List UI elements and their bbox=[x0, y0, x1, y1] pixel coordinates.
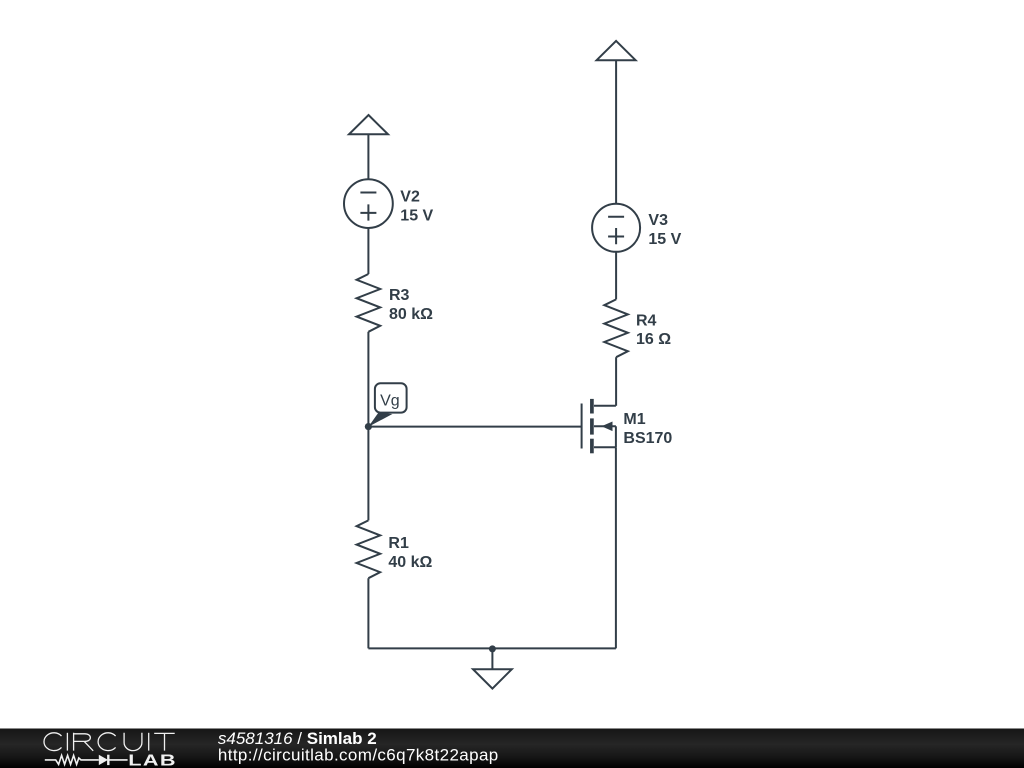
wire (gate) bbox=[368, 426, 581, 428]
svg-text:V2: V2 bbox=[400, 188, 420, 205]
label R4 16 Ohm bbox=[636, 312, 671, 348]
node flag Vg bbox=[368, 383, 406, 427]
logo resistor-diode squiggle bbox=[45, 755, 128, 765]
voltage source V3 bbox=[592, 204, 640, 252]
wire bbox=[367, 332, 369, 427]
wire (drain lead) bbox=[615, 357, 617, 406]
footer bar bbox=[0, 729, 1024, 768]
svg-text:M1: M1 bbox=[623, 411, 645, 428]
svg-text:16 Ω: 16 Ω bbox=[636, 331, 671, 348]
svg-text:80 kΩ: 80 kΩ bbox=[389, 306, 433, 323]
wire (source lead) bbox=[615, 447, 617, 648]
svg-text:R4: R4 bbox=[636, 312, 657, 329]
svg-text:V3: V3 bbox=[648, 212, 668, 229]
junction dot (ground node) bbox=[489, 645, 496, 652]
label V2 15 V bbox=[400, 188, 433, 224]
ground bbox=[473, 648, 512, 688]
logo LAB text bbox=[128, 752, 177, 768]
transistor M1 (NMOS) bbox=[582, 399, 616, 453]
resistor R3 bbox=[357, 274, 381, 332]
wire bbox=[615, 252, 617, 300]
svg-text:Vg: Vg bbox=[380, 393, 400, 410]
wire bbox=[367, 134, 369, 179]
label M1 BS170 bbox=[623, 411, 672, 447]
wire bbox=[615, 60, 617, 204]
wire bbox=[367, 427, 369, 521]
svg-text:15 V: 15 V bbox=[400, 208, 433, 225]
svg-text:LAB: LAB bbox=[128, 752, 177, 768]
wire bbox=[367, 578, 369, 648]
logo CIRCUIT wordmark bbox=[44, 733, 175, 751]
svg-text:http://circuitlab.com/c6q7k8t2: http://circuitlab.com/c6q7k8t22apap bbox=[218, 746, 499, 765]
svg-text:R1: R1 bbox=[388, 535, 409, 552]
voltage source V2 bbox=[344, 179, 393, 228]
svg-text:BS170: BS170 bbox=[623, 430, 672, 447]
wire (bottom rail) bbox=[368, 647, 616, 649]
svg-text:R3: R3 bbox=[389, 287, 410, 304]
label R3 80 kOhm bbox=[389, 287, 433, 323]
power flag (left, +V supply) bbox=[349, 115, 388, 134]
resistor R4 bbox=[604, 299, 628, 357]
wire bbox=[367, 228, 369, 274]
power flag (right, +V supply) bbox=[597, 41, 636, 60]
label R1 40 kOhm bbox=[388, 535, 432, 571]
junction node Vg dot bbox=[365, 423, 372, 430]
svg-text:15 V: 15 V bbox=[648, 231, 681, 248]
svg-text:40 kΩ: 40 kΩ bbox=[388, 554, 432, 571]
resistor R1 bbox=[357, 520, 381, 578]
label V3 15 V bbox=[648, 212, 681, 248]
